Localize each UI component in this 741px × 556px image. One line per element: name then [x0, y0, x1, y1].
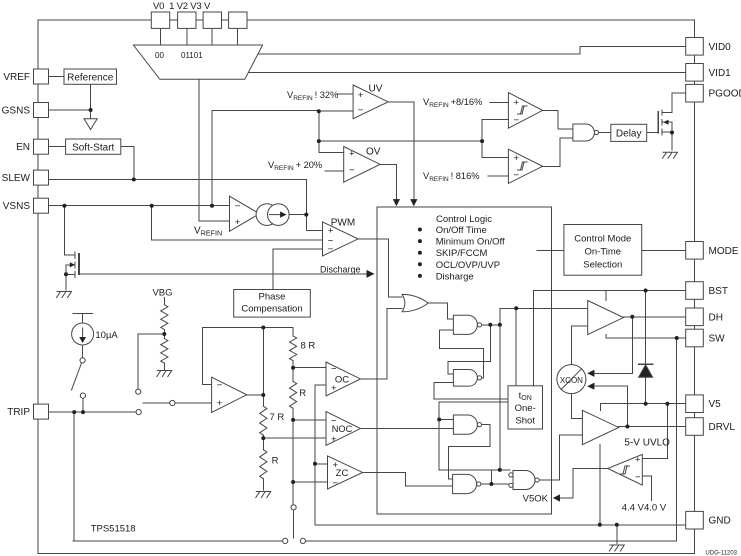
svg-text:VREF: VREF [3, 72, 30, 83]
svg-text:Shot: Shot [515, 416, 535, 427]
svg-text:GND: GND [709, 516, 731, 527]
svg-text:Control Logic: Control Logic [436, 214, 492, 225]
svg-text:XCON: XCON [560, 376, 583, 385]
svg-text:−: − [235, 201, 241, 212]
svg-text:−: − [358, 105, 364, 116]
svg-text:DRVL: DRVL [709, 422, 736, 433]
svg-text:+: + [514, 98, 520, 109]
svg-text:7 R: 7 R [270, 412, 285, 423]
svg-text:+: + [349, 149, 355, 160]
svg-text:−: − [514, 115, 520, 126]
svg-text:On/Off Time: On/Off Time [436, 225, 487, 236]
svg-text:Disharge: Disharge [436, 271, 474, 282]
svg-text:−: − [217, 380, 223, 391]
svg-text:−: − [349, 165, 355, 176]
svg-text:Selection: Selection [583, 260, 622, 271]
svg-text:Discharge: Discharge [320, 265, 361, 275]
svg-text:5-V UVLO: 5-V UVLO [624, 438, 670, 449]
svg-text:VID0: VID0 [709, 42, 732, 53]
svg-text:DH: DH [709, 312, 723, 323]
svg-text:Reference: Reference [67, 72, 114, 83]
svg-text:+: + [331, 383, 337, 394]
svg-text:V5: V5 [709, 399, 722, 410]
svg-text:+: + [217, 398, 223, 409]
svg-text:SKIP/FCCM: SKIP/FCCM [436, 248, 488, 259]
svg-text:OV: OV [366, 147, 381, 158]
svg-text:GSNS: GSNS [2, 106, 31, 117]
svg-text:+: + [514, 153, 520, 164]
svg-text:10µA: 10µA [95, 330, 118, 341]
svg-text:VID1: VID1 [709, 68, 732, 79]
svg-text:+: + [331, 434, 337, 445]
svg-text:MODE: MODE [709, 246, 739, 257]
svg-text:−: − [333, 478, 339, 489]
svg-text:One-: One- [515, 403, 536, 414]
svg-text:00: 00 [155, 51, 164, 60]
svg-text:Compensation: Compensation [241, 304, 302, 315]
svg-text:Soft-Start: Soft-Start [72, 143, 114, 154]
svg-text:V5OK: V5OK [523, 494, 549, 505]
svg-text:VBG: VBG [152, 288, 172, 299]
svg-text:EN: EN [16, 142, 30, 153]
svg-text:PWM: PWM [331, 218, 355, 229]
svg-text:Minimum On/Off: Minimum On/Off [436, 237, 505, 248]
svg-text:On-Time: On-Time [584, 247, 621, 258]
svg-text:Control Mode: Control Mode [574, 234, 631, 245]
svg-text:R: R [299, 388, 306, 399]
svg-text:BST: BST [709, 286, 728, 297]
svg-text:+: + [333, 460, 339, 471]
svg-text:TPS51518: TPS51518 [91, 524, 136, 535]
svg-text:+: + [358, 90, 364, 101]
svg-text:TRIP: TRIP [7, 407, 30, 418]
svg-text:−: − [635, 472, 641, 483]
svg-text:4.4 V4.0 V: 4.4 V4.0 V [622, 503, 667, 514]
svg-text:UDG-11203: UDG-11203 [705, 551, 737, 556]
svg-text:V0 1 V2 V3 V: V0 1 V2 V3 V [153, 1, 211, 12]
svg-text:PGOOD: PGOOD [709, 89, 741, 100]
svg-text:01101: 01101 [181, 51, 203, 60]
svg-text:SW: SW [709, 334, 726, 345]
svg-text:SLEW: SLEW [2, 173, 31, 184]
svg-text:Delay: Delay [616, 128, 642, 139]
svg-text:UV: UV [369, 84, 383, 95]
svg-text:−: − [331, 416, 337, 427]
svg-text:VSNS: VSNS [3, 201, 31, 212]
svg-text:−: − [514, 170, 520, 181]
svg-text:8 R: 8 R [301, 341, 316, 352]
svg-text:+: + [235, 217, 241, 228]
svg-text:R: R [272, 456, 279, 467]
svg-text:−: − [328, 244, 334, 255]
svg-text:OC: OC [335, 375, 349, 386]
svg-text:Phase: Phase [259, 292, 286, 303]
svg-text:−: − [331, 364, 337, 375]
svg-text:+: + [635, 454, 641, 465]
svg-text:OCL/OVP/UVP: OCL/OVP/UVP [436, 260, 500, 271]
